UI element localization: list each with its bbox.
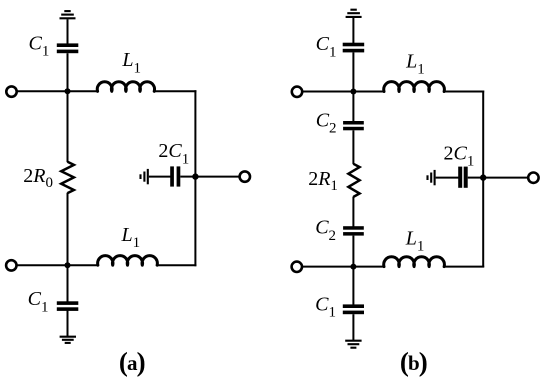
wire port 1 to node D (b) xyxy=(303,91,354,93)
wire right rail (a) xyxy=(194,90,196,266)
capacitor C2 (bottom, b) xyxy=(343,226,364,235)
wire resistor to capacitor C2 bottom (b) xyxy=(352,197,354,227)
wire 2C1 to node C (a) xyxy=(180,176,195,178)
wire node A to inductor L1 (a) xyxy=(68,90,99,92)
wire node F to port 2 (b) xyxy=(483,177,528,179)
wire port 3 to node B (a) xyxy=(17,264,68,266)
terminal port 2 (b) xyxy=(528,173,538,183)
resistor 2R1 (b) xyxy=(348,164,359,197)
terminal port 2 (a) xyxy=(240,171,250,181)
wire node D to inductor L1 (b) xyxy=(353,91,385,93)
ground (bottom of circuit b) xyxy=(345,341,361,348)
wire C1 bottom to ground (a) xyxy=(67,310,69,337)
terminal port 3 (b) xyxy=(292,262,302,272)
capacitor C1 (top, a) xyxy=(57,43,79,53)
wire right rail (b) xyxy=(482,91,484,268)
node D (b) xyxy=(350,89,356,95)
wire C2 bottom to node E (b) xyxy=(352,236,354,267)
wire L1 bottom to right rail corner (a) xyxy=(157,264,196,266)
capacitor C1 (top, b) xyxy=(343,43,365,53)
capacitor C2 (top, b) xyxy=(343,121,364,130)
node C (a) xyxy=(192,173,198,179)
inductor L1 (bottom, b) xyxy=(384,257,445,267)
wire L1 to right rail corner (b) xyxy=(444,91,484,93)
wire node B to inductor L1 bottom (a) xyxy=(68,264,99,266)
capacitor C1 (bottom, b) xyxy=(343,304,364,314)
wire ground to capacitor C1 top (b) xyxy=(352,18,354,43)
ground (top of circuit b) xyxy=(346,10,362,17)
node B (a) xyxy=(65,262,71,268)
wire C1 bottom to ground (b) xyxy=(352,314,354,340)
wire node D to capacitor C2 top (b) xyxy=(352,92,354,122)
wire L1 to right rail corner (a) xyxy=(154,90,196,92)
wire C1 to node D (b) xyxy=(352,52,354,91)
wire ground to capacitor C1 top (a) xyxy=(67,19,69,43)
wire node A to resistor (a) xyxy=(67,91,69,162)
wire C2 to resistor (b) xyxy=(352,130,354,164)
terminal port 1 (a) xyxy=(6,86,16,96)
inductor L1 (top, b) xyxy=(384,82,445,92)
wire resistor to node B (a) xyxy=(67,193,69,266)
terminal port 3 (a) xyxy=(6,260,16,270)
svg-text:(a): (a) xyxy=(119,347,145,377)
ground (side, b) xyxy=(428,170,435,185)
inductor L1 (bottom, a) xyxy=(98,256,158,266)
wire node B to capacitor C1 bottom (a) xyxy=(67,265,69,301)
capacitor C1 (bottom, a) xyxy=(57,301,79,311)
ground (bottom of circuit a) xyxy=(60,337,76,343)
terminal port 1 (b) xyxy=(292,87,302,97)
inductor L1 (top, a) xyxy=(97,82,154,92)
wire node E to inductor L1 bottom (b) xyxy=(353,266,385,268)
wire side ground to capacitor 2C1 (a) xyxy=(149,176,171,178)
capacitor 2C1 (a) xyxy=(170,166,180,186)
wire L1 bottom to right rail corner (b) xyxy=(445,266,484,268)
wire 2C1 to node F (b) xyxy=(468,177,484,179)
svg-text:(b): (b) xyxy=(400,347,427,377)
capacitor 2C1 (b) xyxy=(458,167,468,188)
wire side ground to capacitor 2C1 (b) xyxy=(436,177,459,179)
ground (side, a) xyxy=(141,169,148,184)
wire node C to port 2 (a) xyxy=(195,176,239,178)
node A (a) xyxy=(65,88,71,94)
wire port 1 to node A (a) xyxy=(17,90,68,92)
wire port 3 to node E (b) xyxy=(302,266,353,268)
resistor 2R0 (a) xyxy=(61,162,74,193)
wire C1 to node A (a) xyxy=(67,53,69,91)
ground (top of circuit a) xyxy=(60,11,76,18)
wire node E to capacitor C1 bottom (b) xyxy=(352,267,354,305)
node E (b) xyxy=(350,264,356,270)
node F (b) xyxy=(480,174,486,180)
